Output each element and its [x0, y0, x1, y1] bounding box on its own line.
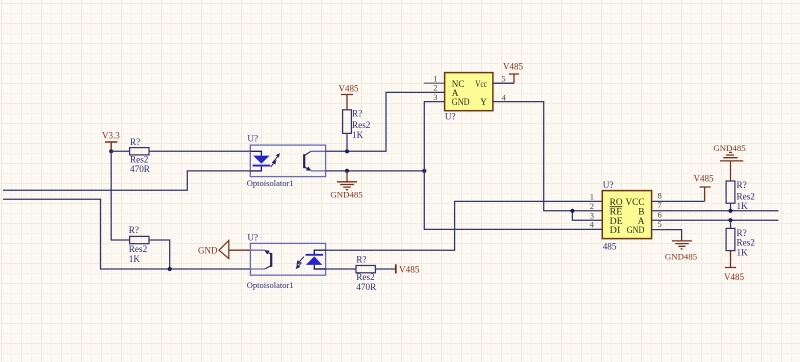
svg-text:V485: V485 [724, 272, 744, 282]
svg-text:1K: 1K [737, 201, 749, 211]
svg-text:R?: R? [356, 255, 366, 265]
ground GND485 (middle) [330, 171, 363, 199]
wire emitter to GND485 net [326, 170, 425, 172]
svg-text:470R: 470R [356, 282, 377, 292]
svg-text:DI: DI [610, 226, 621, 236]
wire lower left input [3, 199, 250, 269]
svg-text:R?: R? [737, 180, 747, 190]
optoisolator U? (top) body [247, 134, 326, 189]
wire R? 470R to optoisolator anode [149, 150, 250, 152]
optoisolator U? (bottom) body [247, 233, 326, 290]
resistor R? 1K (middle vertical) [343, 108, 371, 139]
wire net A to R? 1K [730, 220, 732, 228]
wire GND pin 3 down to DI pin 4 [424, 102, 603, 230]
IC U? 485 transceiver body [602, 180, 651, 251]
svg-text:Res2: Res2 [129, 244, 148, 254]
resistor R? 470R (top) [130, 137, 151, 174]
wire net A pin 6 [652, 219, 779, 221]
svg-text:GND485: GND485 [330, 189, 363, 199]
svg-text:Y: Y [480, 98, 487, 108]
power port V3.3 [102, 131, 120, 152]
svg-text:Res2: Res2 [352, 120, 371, 130]
wire V3.3 node down to R? 1K [111, 151, 129, 240]
wire net B pin 7 [652, 210, 779, 212]
wire R? 1K to net B [730, 203, 732, 211]
ground GND485 (top right, inverted) [713, 143, 746, 181]
wire Y pin 4 to RE and DE [493, 102, 602, 221]
power port V485 above R? 1K [339, 83, 359, 110]
resistor R? 1K (right lower) [726, 228, 755, 257]
svg-text:1K: 1K [737, 247, 749, 257]
LED inside U? bottom optoisolator [306, 250, 326, 269]
svg-text:V485: V485 [503, 62, 523, 72]
svg-text:Res2: Res2 [130, 155, 149, 165]
resistor R? 1K (right upper) [726, 180, 755, 211]
svg-text:V3.3: V3.3 [102, 131, 120, 141]
wire VCC pin 8 [652, 200, 705, 202]
svg-text:GND485: GND485 [665, 251, 698, 261]
svg-text:Res2: Res2 [737, 192, 756, 202]
svg-text:U?: U? [247, 134, 258, 144]
svg-text:V485: V485 [694, 174, 714, 184]
svg-text:Res2: Res2 [356, 272, 375, 282]
svg-text:470R: 470R [130, 164, 151, 174]
svg-text:R?: R? [737, 228, 747, 238]
junction on net A [728, 218, 732, 222]
svg-text:GND: GND [452, 98, 470, 108]
svg-text:GND: GND [627, 226, 645, 236]
junction on net B [728, 209, 732, 213]
junction on DI vertical [422, 169, 426, 173]
svg-text:GND485: GND485 [713, 143, 746, 153]
phototransistor inside U? top [304, 151, 325, 171]
svg-text:V485: V485 [339, 83, 359, 93]
junction on lower net [168, 267, 172, 271]
wire GND pin 5 [652, 230, 682, 241]
light emission arrows U? top [271, 153, 280, 167]
wire R? 1K to lower net [149, 240, 170, 269]
svg-text:R?: R? [352, 108, 362, 118]
wire Vcc pin 5 [493, 82, 514, 84]
wire R? 470R to V485 bar [375, 268, 395, 270]
phototransistor inside U? bottom [250, 250, 271, 269]
power port GND arrow [198, 240, 250, 258]
pin 5 stub gray [493, 82, 514, 84]
power port V485 (bottom right) [724, 251, 744, 282]
junction at GND485 [345, 169, 349, 173]
svg-text:Vcc: Vcc [475, 80, 487, 90]
svg-text:U?: U? [247, 233, 258, 243]
svg-text:R?: R? [129, 225, 139, 235]
svg-text:U?: U? [445, 112, 456, 122]
wire U? bottom anode to R? 470R [326, 268, 356, 270]
svg-text:1K: 1K [129, 254, 141, 264]
svg-text:Optoisolator1: Optoisolator1 [247, 178, 294, 188]
svg-text:U?: U? [603, 180, 614, 190]
svg-text:5: 5 [501, 74, 505, 84]
junction at R? 1K bottom [345, 149, 349, 153]
wire V3.3 node to R? 470R [111, 150, 129, 152]
resistor R? 470R (bottom) [356, 255, 377, 292]
power port V485 bar style [396, 264, 420, 274]
resistor R? 1K (left) [129, 225, 149, 264]
power port V485 at pin 8 [694, 174, 714, 202]
wire R? 1K to collector node [346, 133, 348, 151]
svg-text:Optoisolator1: Optoisolator1 [247, 280, 294, 290]
svg-text:GND: GND [198, 245, 218, 255]
svg-text:1K: 1K [352, 130, 364, 140]
wire collector to pin A [326, 92, 445, 151]
svg-text:R?: R? [130, 137, 140, 147]
LED inside U? top optoisolator [250, 151, 270, 171]
junction at V3.3 node [109, 149, 113, 153]
svg-text:V485: V485 [399, 265, 420, 275]
wire cathode to left input [3, 171, 250, 190]
svg-text:Res2: Res2 [737, 238, 756, 248]
junction at RE [570, 209, 574, 213]
pin 1 NC stub [424, 82, 445, 84]
wire U? bottom to RO pin 1 [326, 201, 603, 250]
svg-text:485: 485 [603, 241, 617, 251]
svg-text:4: 4 [502, 92, 507, 102]
svg-text:3: 3 [433, 92, 437, 102]
power port V485 at pin 5 [503, 62, 523, 84]
IC U? logic chip body [445, 73, 493, 122]
ground GND485 at pin 5 [665, 241, 698, 261]
light emission arrows U? bottom [296, 257, 304, 269]
